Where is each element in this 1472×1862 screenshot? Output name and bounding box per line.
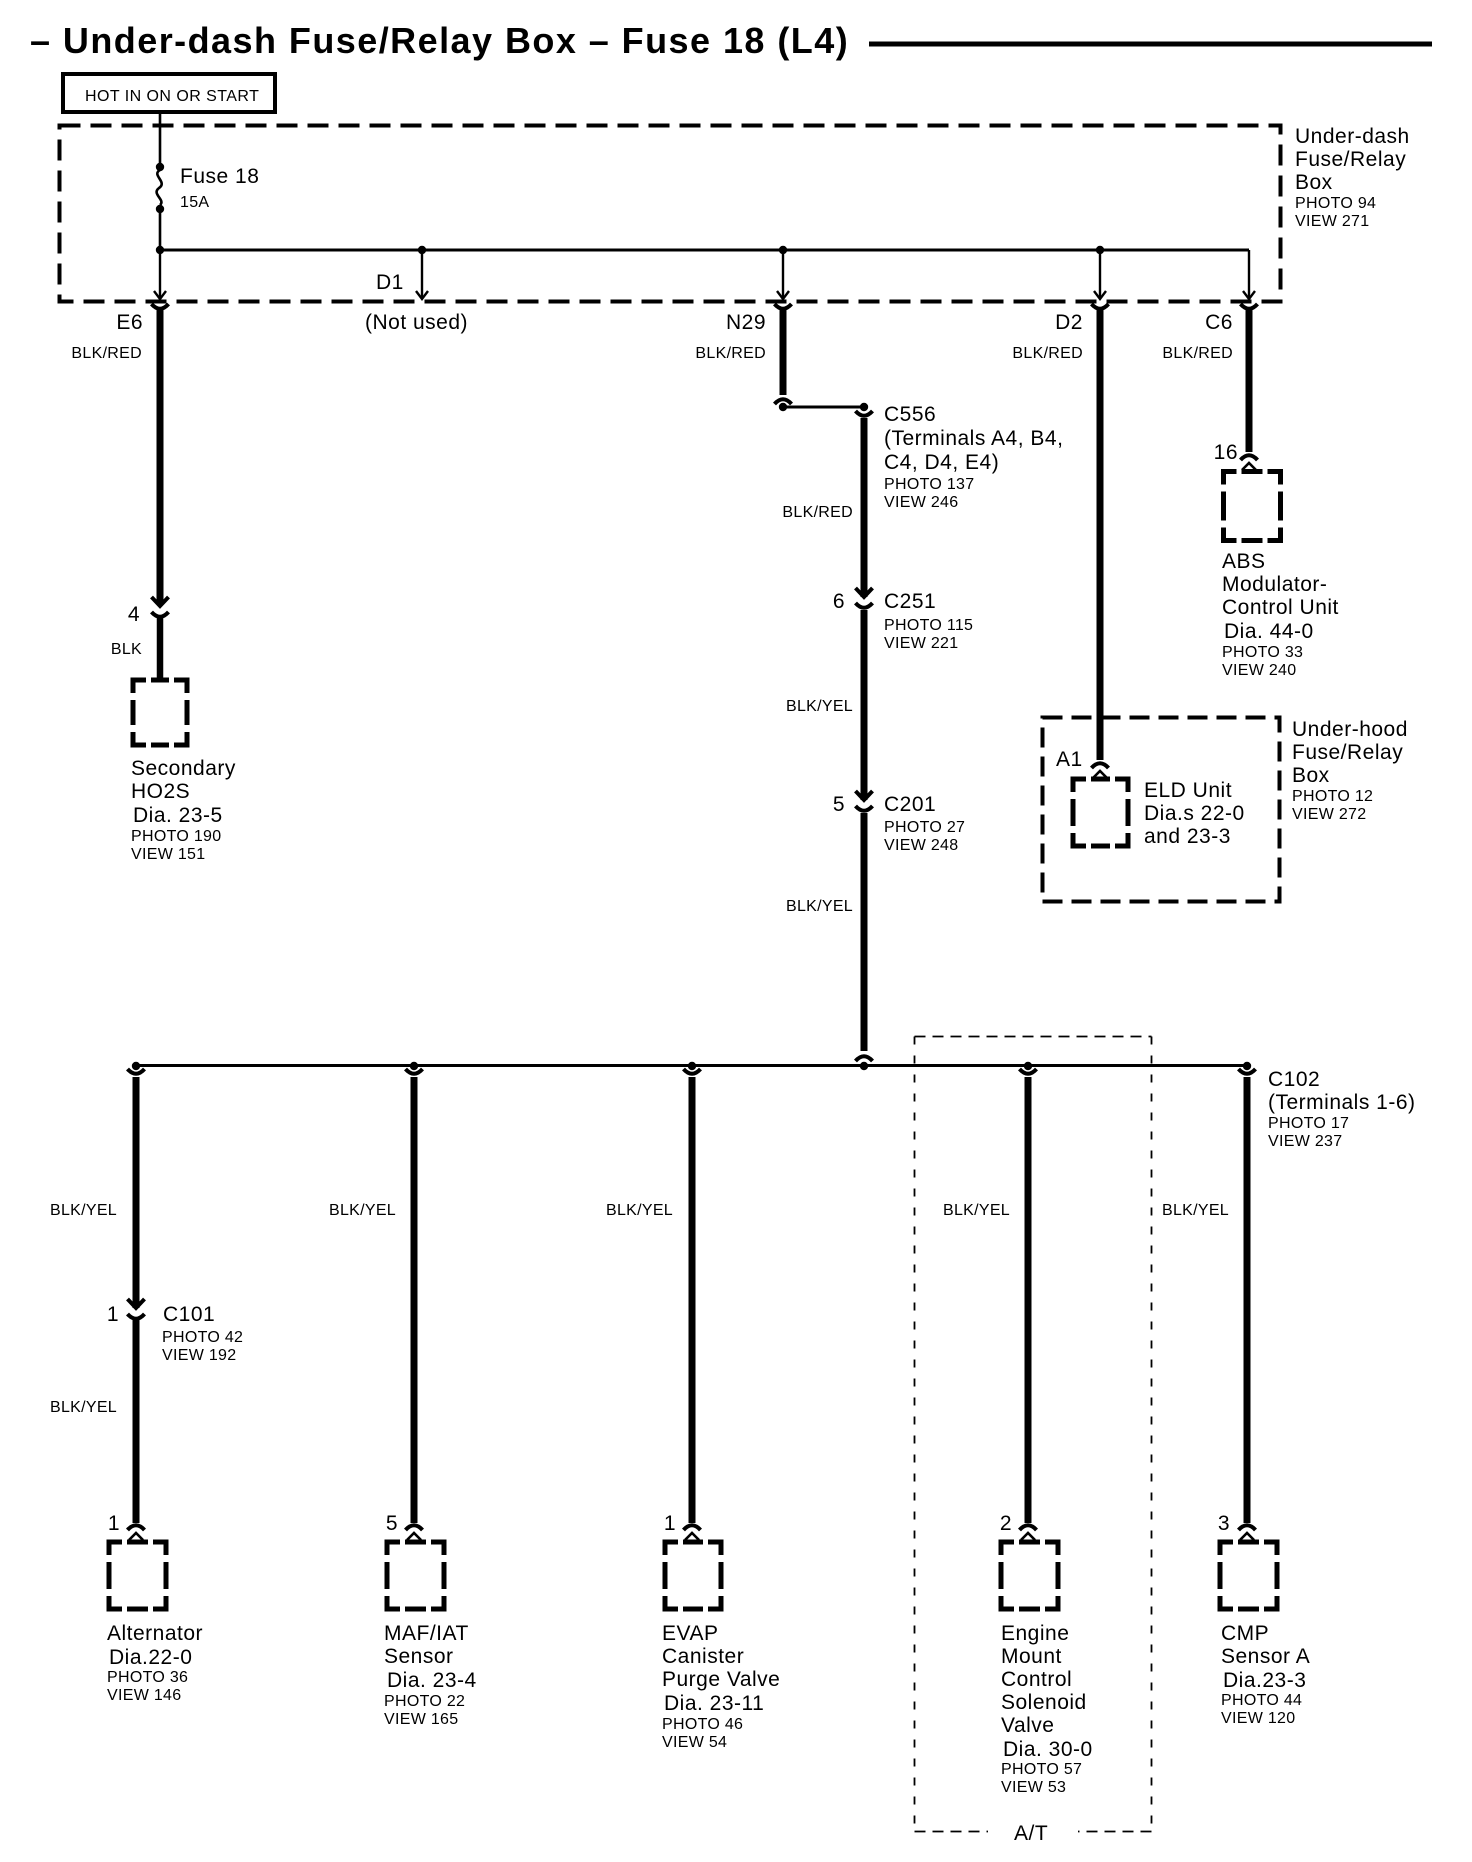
svg-text:Fuse/Relay: Fuse/Relay [1295,148,1406,171]
junction dot N29 drop [779,246,787,254]
svg-text:PHOTO 115: PHOTO 115 [884,617,973,634]
svg-text:1: 1 [107,1303,119,1326]
node dot at C556 top [860,403,868,411]
svg-text:C4, D4, E4): C4, D4, E4) [884,451,999,474]
svg-text:BLK/RED: BLK/RED [1162,345,1233,362]
N29 wire female terminal [775,304,792,309]
svg-text:BLK/RED: BLK/RED [782,504,853,521]
ELD Unit label [1144,779,1245,848]
C251 label [884,590,973,652]
ELD Unit component box [1073,779,1128,846]
svg-text:(Terminals 1-6): (Terminals 1-6) [1268,1091,1416,1114]
svg-text:VIEW 165: VIEW 165 [384,1711,458,1728]
svg-text:ABS: ABS [1222,550,1266,573]
bus node dot alternator [132,1062,140,1070]
drop arrow to D2 [1099,250,1101,297]
drop arrow to N29 [782,250,784,297]
svg-text:C102: C102 [1268,1068,1320,1091]
svg-text:(Not used): (Not used) [365,311,468,334]
wire D2 BLK/RED to ELD [1097,307,1104,760]
svg-text:Sensor: Sensor [384,1645,454,1668]
svg-text:BLK/RED: BLK/RED [695,345,766,362]
in-line connector C101 [128,1299,145,1319]
svg-text:ELD Unit: ELD Unit [1144,779,1232,802]
svg-text:2: 2 [1000,1512,1012,1535]
CMP Sensor A component box [1220,1542,1277,1609]
svg-text:PHOTO 27: PHOTO 27 [884,819,965,836]
svg-text:BLK/YEL: BLK/YEL [606,1202,673,1219]
svg-text:C556: C556 [884,403,936,426]
svg-text:Dia.s 22-0: Dia.s 22-0 [1144,802,1245,825]
in-line connector C251 [856,588,873,608]
svg-text:6: 6 [833,590,845,613]
svg-text:N29: N29 [726,311,766,334]
svg-text:Under-dash: Under-dash [1295,125,1410,148]
svg-text:VIEW 192: VIEW 192 [162,1347,236,1364]
svg-text:Dia.23-3: Dia.23-3 [1223,1669,1306,1692]
svg-text:VIEW 237: VIEW 237 [1268,1133,1342,1150]
in-line connector terminal 4 [152,597,169,617]
wire fuse to bus [159,211,162,250]
Under-dash Fuse/Relay Box label [1295,125,1410,230]
svg-text:BLK/RED: BLK/RED [1012,345,1083,362]
C101 label [162,1303,243,1364]
internal distribution bus wire [159,249,1250,252]
svg-text:PHOTO 190: PHOTO 190 [131,828,221,845]
svg-text:Box: Box [1295,171,1333,194]
wire from HOT feed to fuse [159,112,162,165]
svg-text:5: 5 [386,1512,398,1535]
svg-text:BLK/RED: BLK/RED [71,345,142,362]
svg-text:VIEW 146: VIEW 146 [107,1687,181,1704]
svg-text:PHOTO 12: PHOTO 12 [1292,788,1373,805]
svg-text:Under-hood: Under-hood [1292,718,1408,741]
svg-text:15A: 15A [180,194,209,211]
svg-text:PHOTO 94: PHOTO 94 [1295,195,1376,212]
CMP drop female terminal [1239,1069,1256,1074]
svg-text:Box: Box [1292,764,1330,787]
svg-text:Alternator: Alternator [107,1622,203,1645]
Secondary HO2S label [131,757,236,863]
svg-text:PHOTO 22: PHOTO 22 [384,1693,465,1710]
fuse F18 top terminal dot [156,163,164,171]
svg-text:3: 3 [1218,1512,1230,1535]
node dot at N29 jog left [779,403,787,411]
svg-text:Mount: Mount [1001,1645,1062,1668]
C556 female terminal [856,411,873,416]
svg-text:Valve: Valve [1001,1714,1054,1737]
svg-text:PHOTO 46: PHOTO 46 [662,1716,743,1733]
wire BLK/YEL to C101 [133,1077,140,1308]
wire N29 BLK/RED [780,307,787,395]
Secondary HO2S component box [133,680,187,745]
svg-text:BLK/YEL: BLK/YEL [50,1202,117,1219]
Under-dash Fuse/Relay Box dashed outline [60,126,1281,302]
ABS Modulator-Control Unit label [1222,550,1339,679]
svg-text:E6: E6 [116,311,143,334]
svg-text:HOT IN ON OR START: HOT IN ON OR START [85,88,259,105]
svg-text:VIEW 246: VIEW 246 [884,494,958,511]
svg-text:D1: D1 [376,271,404,294]
svg-text:PHOTO 33: PHOTO 33 [1222,644,1303,661]
ABS Modulator-Control Unit component box [1224,472,1281,541]
EVAP Canister Purge Valve label [662,1622,780,1751]
svg-text:PHOTO 137: PHOTO 137 [884,476,974,493]
svg-text:Control: Control [1001,1668,1072,1691]
svg-text:– Under-dash Fuse/Relay Box –: – Under-dash Fuse/Relay Box – Fuse 18 (L… [30,20,849,61]
EVAP box connector [684,1525,701,1540]
wire BLK/YEL C201 to lower bus [861,813,868,1051]
lower distribution bus wire C102 side [136,1064,1247,1067]
Alternator component box [109,1542,166,1609]
svg-text:BLK: BLK [111,641,142,658]
svg-text:VIEW 221: VIEW 221 [884,635,958,652]
CMP Sensor A label [1221,1622,1310,1727]
D2 wire female terminal [1092,304,1109,309]
Alternator label [107,1622,203,1704]
svg-text:Fuse 18: Fuse 18 [180,165,259,188]
svg-text:VIEW 240: VIEW 240 [1222,662,1296,679]
svg-text:Engine: Engine [1001,1622,1069,1645]
MAF/IAT Sensor component box [387,1542,444,1609]
alternator drop female terminal [128,1069,145,1074]
svg-text:MAF/IAT: MAF/IAT [384,1622,469,1645]
ELD box connector [1092,763,1109,778]
svg-text:Sensor A: Sensor A [1221,1645,1310,1668]
HOT IN ON OR START box [63,74,275,112]
wire BLK/YEL to CMP sensor [1244,1077,1251,1523]
wire BLK/YEL to MAF/IAT [411,1077,418,1523]
wire C6 BLK/RED to ABS [1246,307,1253,452]
svg-text:PHOTO 42: PHOTO 42 [162,1329,243,1346]
wire BLK/RED C556 to C251 [861,418,868,597]
svg-text:VIEW 271: VIEW 271 [1295,213,1369,230]
svg-text:CMP: CMP [1221,1622,1269,1645]
C6 wire female terminal [1241,304,1258,309]
svg-text:Dia.22-0: Dia.22-0 [109,1646,192,1669]
bus node dot trunk [860,1062,868,1070]
drop arrow to C6 [1248,250,1250,297]
alternator box connector [128,1525,145,1540]
MAF box connector [406,1525,423,1540]
svg-text:PHOTO 17: PHOTO 17 [1268,1115,1349,1132]
svg-text:Fuse/Relay: Fuse/Relay [1292,741,1403,764]
bus node dot CMP [1243,1062,1251,1070]
wire E6 BLK/RED [157,307,164,605]
jog wire to C556 [783,406,864,409]
bus node dot EVAP [688,1062,696,1070]
svg-text:and 23-3: and 23-3 [1144,825,1231,848]
trunk male end at lower bus [856,1056,873,1061]
svg-text:EVAP: EVAP [662,1622,718,1645]
svg-text:Canister: Canister [662,1645,744,1668]
wire BLK/YEL C101 to alternator [133,1320,140,1523]
A/T region left edge [914,1037,916,1832]
svg-text:VIEW 120: VIEW 120 [1221,1710,1295,1727]
svg-text:C101: C101 [163,1303,215,1326]
svg-text:D2: D2 [1055,311,1083,334]
svg-text:5: 5 [833,793,845,816]
fuse 18 element squiggle [157,170,162,205]
svg-text:VIEW 272: VIEW 272 [1292,806,1366,823]
svg-text:BLK/YEL: BLK/YEL [1162,1202,1229,1219]
C556 label [884,403,1063,511]
bus node dot engine mount [1024,1062,1032,1070]
svg-text:HO2S: HO2S [131,780,190,803]
MAF/IAT Sensor label [384,1622,477,1728]
junction dot D2 drop [1096,246,1104,254]
junction dot D1 drop [418,246,426,254]
svg-text:PHOTO 44: PHOTO 44 [1221,1692,1302,1709]
wire BLK/YEL to EVAP valve [689,1077,696,1523]
svg-text:4: 4 [128,603,140,626]
svg-text:Purge Valve: Purge Valve [662,1668,780,1691]
CMP box connector [1239,1525,1256,1540]
svg-text:C6: C6 [1205,311,1233,334]
svg-text:Dia. 44-0: Dia. 44-0 [1224,620,1314,643]
svg-text:Dia. 23-5: Dia. 23-5 [133,804,223,827]
svg-text:VIEW 151: VIEW 151 [131,846,205,863]
E6 wire female terminal [152,304,169,309]
svg-text:Dia. 23-11: Dia. 23-11 [664,1692,764,1715]
svg-text:(Terminals A4, B4,: (Terminals A4, B4, [884,427,1063,450]
svg-text:A/T: A/T [1014,1822,1048,1845]
in-line connector C201 [856,791,873,811]
svg-text:BLK/YEL: BLK/YEL [786,898,853,915]
A/T region bottom-left edge [915,1831,989,1833]
svg-text:A1: A1 [1056,748,1083,771]
svg-text:Secondary: Secondary [131,757,236,780]
svg-text:Solenoid: Solenoid [1001,1691,1087,1714]
svg-text:Dia. 23-4: Dia. 23-4 [387,1669,477,1692]
svg-text:PHOTO 57: PHOTO 57 [1001,1761,1082,1778]
wire BLK to Secondary HO2S [157,618,164,679]
drop arrow to E6 [159,250,161,297]
svg-text:VIEW 54: VIEW 54 [662,1734,727,1751]
svg-text:1: 1 [664,1512,676,1535]
svg-text:C251: C251 [884,590,936,613]
svg-text:Dia. 30-0: Dia. 30-0 [1003,1738,1093,1761]
Under-hood Fuse/Relay Box dashed outline [1043,718,1280,902]
C201 label [884,793,965,854]
svg-text:C201: C201 [884,793,936,816]
svg-text:BLK/YEL: BLK/YEL [329,1202,396,1219]
fuse F18 bottom terminal dot [156,205,164,213]
drop arrow to D1 [421,250,423,297]
svg-text:BLK/YEL: BLK/YEL [943,1202,1010,1219]
svg-text:16: 16 [1214,441,1238,464]
N29 wire male end [775,399,792,404]
C102 label [1268,1068,1416,1150]
bus node dot MAF [410,1062,418,1070]
Engine Mount Control Solenoid Valve label [1001,1622,1093,1796]
svg-text:Control Unit: Control Unit [1222,596,1339,619]
wire BLK/YEL to engine mount solenoid [1025,1077,1032,1523]
svg-text:Modulator-: Modulator- [1222,573,1327,596]
svg-text:1: 1 [108,1512,120,1535]
EVAP Canister Purge Valve component box [665,1542,721,1609]
svg-text:PHOTO 36: PHOTO 36 [107,1669,188,1686]
svg-text:BLK/YEL: BLK/YEL [50,1399,117,1416]
svg-text:BLK/YEL: BLK/YEL [786,698,853,715]
A/T region right edge [1151,1037,1153,1832]
engine mount drop female terminal [1020,1069,1037,1074]
svg-text:VIEW 53: VIEW 53 [1001,1779,1066,1796]
ABS box connector [1241,455,1258,470]
Under-hood Fuse/Relay Box label [1292,718,1408,823]
A/T region bottom-right edge [1078,1831,1152,1833]
engine mount box connector [1020,1525,1037,1540]
svg-text:VIEW 248: VIEW 248 [884,837,958,854]
junction dot at fuse drop [156,246,164,254]
Engine Mount Control Solenoid Valve component box [1001,1542,1058,1609]
A/T dashed region outline [915,1036,1152,1038]
MAF drop female terminal [406,1069,423,1074]
wire BLK/YEL C251 to C201 [861,610,868,800]
title rule line [869,42,1432,47]
EVAP drop female terminal [684,1069,701,1074]
